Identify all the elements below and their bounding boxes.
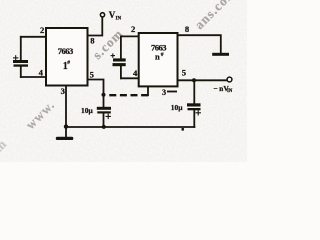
wire pin8 U1 to VIN terminal [88,17,103,35]
wire C4 bottom lead [193,111,195,128]
capacitor C1 bottom lead [20,66,22,77]
capacitor C1 plates [13,60,28,67]
capacitor C2 bottom lead [120,66,122,78]
wire C3 bottom lead [103,114,105,128]
terminal VIN circle [100,13,104,17]
svg-text:8: 8 [185,24,190,34]
capacitor C3 plates [97,107,111,114]
svg-text:5: 5 [90,70,94,80]
svg-text:#: # [161,52,164,58]
junction node D (C3 / ground rail) [102,125,106,129]
capacitor C3 polarity + [106,114,112,119]
dashed link wire from U1 output node to U2 pin3 [109,94,149,96]
junction node C (U2 out / C4) [192,78,196,82]
svg-text:8: 8 [90,35,95,45]
svg-text:#: # [67,60,70,66]
ground symbol right [212,53,229,56]
svg-text:2: 2 [131,24,135,34]
pin3 tab mark U2 [167,91,177,93]
capacitor C1 polarity + [13,55,18,60]
wire C4 top lead [193,80,195,103]
watermark [0,0,239,160]
capacitor C1 top lead [20,37,22,60]
wire pin4 U2 [121,77,139,79]
svg-text:n: n [155,51,160,61]
ground stem left [65,127,67,137]
terminal output circle [227,77,232,82]
junction nub below rail [182,128,184,131]
svg-text:2: 2 [40,25,44,35]
capacitor C2 polarity + [111,53,115,57]
wire pin2 U2 [121,35,139,37]
capacitor C2 top lead [120,36,122,58]
svg-text:IN: IN [116,16,122,21]
svg-text:IN: IN [227,89,233,94]
svg-text:7663: 7663 [58,46,73,56]
svg-text:10μ: 10μ [171,103,184,112]
svg-text:3: 3 [61,86,65,96]
junction node A (U1 out / dashed link) [102,93,106,97]
svg-text:5: 5 [182,67,186,77]
capacitor C4 plates [187,103,201,110]
wire pin5 U1 down [88,80,104,107]
bottom ground rail [66,126,194,128]
wire pin8 U2 to ground [178,35,221,53]
wire pin2 U1 to C1 [21,36,46,38]
capacitor C2 plates [113,58,126,66]
svg-text:4: 4 [133,68,138,78]
IC U2 body [139,33,178,86]
svg-text:3: 3 [162,88,166,97]
capacitor C4 polarity + [196,110,202,115]
wire pin3 U1 down [65,86,67,128]
wire pin3 U2 riser to dashed link [147,87,149,96]
svg-text:4: 4 [39,68,44,78]
svg-text:10μ: 10μ [81,106,94,115]
wire pin4 U1 to C1 [21,76,46,78]
IC U1 body [46,28,88,86]
wire pin5 U2 to output terminal [178,79,228,81]
ground symbol left [56,137,74,140]
junction node B (pin3 / ground rail) [64,124,68,128]
